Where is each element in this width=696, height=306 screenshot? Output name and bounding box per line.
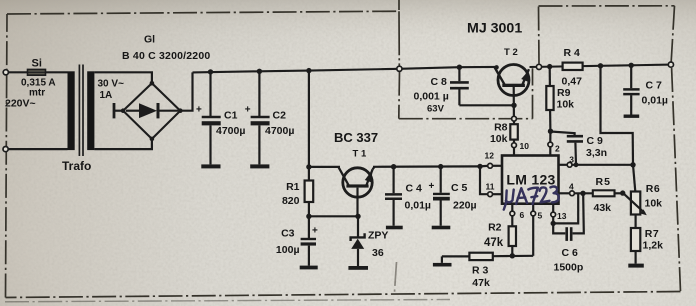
- resistor R5 43k: [593, 190, 615, 196]
- pin 6 and resistor R2 47k: [511, 204, 513, 211]
- transformer Trafo primary winding: [68, 71, 75, 150]
- transistor T1 BC337: [343, 168, 372, 197]
- wire secondary bottom to bridge: [94, 139, 151, 149]
- capacitor C8 0.001u: [457, 65, 462, 70]
- svg-text:R1: R1: [286, 181, 300, 193]
- svg-text:T 2: T 2: [504, 47, 518, 58]
- svg-text:R 3: R 3: [472, 265, 489, 277]
- wire base node: [309, 215, 358, 217]
- ground stub left of R3: [441, 256, 443, 263]
- svg-text:3: 3: [569, 155, 574, 165]
- svg-text:C 7: C 7: [646, 80, 663, 92]
- svg-text:R7: R7: [645, 228, 659, 240]
- transformer Trafo secondary winding: [87, 71, 94, 150]
- pin 11: [488, 192, 493, 197]
- svg-text:0,47: 0,47: [562, 76, 583, 88]
- capacitor C7 0.01u: [630, 65, 632, 88]
- svg-text:3,3n: 3,3n: [586, 147, 607, 159]
- svg-text:4700µ: 4700µ: [265, 125, 294, 137]
- capacitor C1: [209, 72, 211, 116]
- wire pin13 bypass up to R5 line: [553, 193, 578, 223]
- svg-text:43k: 43k: [594, 202, 612, 214]
- svg-text:13: 13: [557, 211, 567, 221]
- node C9 sense junction: [574, 162, 579, 167]
- pin 5: [532, 204, 534, 211]
- svg-text:+: +: [312, 226, 318, 237]
- svg-text:36: 36: [372, 247, 384, 259]
- svg-text:820: 820: [282, 195, 300, 207]
- svg-text:R6: R6: [646, 183, 660, 195]
- potentiometer R6 10k: [633, 165, 635, 192]
- wire 220V bottom input: [6, 148, 68, 150]
- wire 220V top input: [7, 71, 28, 73]
- wire secondary top to bridge: [94, 72, 151, 83]
- svg-text:R9: R9: [557, 87, 571, 99]
- transformer core: [78, 65, 80, 157]
- svg-text:C3: C3: [281, 228, 295, 240]
- svg-text:R2: R2: [488, 222, 502, 234]
- pin 4: [559, 192, 570, 194]
- node R1/C3/zener: [306, 214, 311, 219]
- svg-text:47k: 47k: [472, 277, 490, 289]
- terminal ring mains bottom: [3, 147, 8, 152]
- svg-text:C 9: C 9: [587, 135, 604, 147]
- svg-text:6: 6: [520, 210, 525, 220]
- wire branch from R4 right to sense line: [601, 66, 634, 165]
- resistor R4 0.47: [563, 63, 583, 70]
- svg-text:C 8: C 8: [431, 76, 448, 88]
- pin 13: [552, 204, 554, 212]
- svg-text:+: +: [429, 181, 435, 192]
- ground: [624, 115, 640, 118]
- svg-text:10: 10: [520, 141, 530, 151]
- wire T1 emitter to regulator supply: [373, 167, 375, 170]
- resistor R3 47k: [469, 253, 492, 260]
- svg-text:1500p: 1500p: [554, 262, 584, 274]
- svg-text:C2: C2: [273, 110, 287, 122]
- svg-text:4: 4: [569, 182, 574, 192]
- node C1 rail junction: [208, 69, 213, 74]
- svg-text:100µ: 100µ: [276, 244, 300, 256]
- terminal ring output +: [668, 62, 673, 67]
- svg-text:0,001 µ: 0,001 µ: [414, 91, 449, 103]
- wire R3 row: [442, 255, 470, 257]
- node T1 base / zener: [355, 214, 360, 219]
- pin 12: [488, 163, 493, 168]
- diode inside bridge: [126, 110, 139, 112]
- terminal ring mains top: [3, 70, 8, 75]
- svg-text:C 5: C 5: [451, 182, 468, 194]
- R6 wiper arrow: [623, 193, 645, 213]
- svg-text:+: +: [245, 105, 251, 116]
- wire riser to T1 stage: [308, 71, 310, 167]
- resistor R7 1.2k: [634, 215, 636, 229]
- zener ZPY36: [357, 216, 359, 237]
- svg-text:1,2k: 1,2k: [643, 240, 664, 252]
- ground stub at bridge minus (bar terminal): [113, 103, 116, 118]
- svg-text:12: 12: [485, 151, 495, 161]
- svg-text:B 40 C 3200/2200: B 40 C 3200/2200: [122, 50, 210, 62]
- svg-text:Si: Si: [32, 58, 42, 70]
- capacitor C6 1500p: [553, 223, 565, 233]
- capacitor C3 100u: [308, 216, 310, 238]
- svg-text:63V: 63V: [427, 104, 445, 115]
- op-amp U1 LM123 box: [502, 156, 559, 204]
- ground: [628, 264, 644, 268]
- pin 2: [549, 131, 551, 142]
- pin 10: [512, 143, 517, 148]
- svg-text:Trafo: Trafo: [62, 159, 91, 173]
- svg-text:+: +: [196, 105, 202, 116]
- resistor R9 10k: [549, 67, 551, 86]
- svg-text:R 4: R 4: [564, 47, 581, 59]
- wire C8 to T2 base: [459, 104, 514, 106]
- svg-text:R5: R5: [596, 176, 611, 188]
- node pin2 / R9 / C9 junction: [548, 129, 553, 134]
- svg-text:10k: 10k: [645, 198, 663, 210]
- svg-text:Gl: Gl: [144, 34, 155, 46]
- bridge rectifier Gl B40C3200/2200 diamond: [123, 83, 180, 139]
- capacitor C9 3.3n: [551, 132, 575, 136]
- svg-text:0,01µ: 0,01µ: [405, 200, 432, 212]
- svg-text:220µ: 220µ: [453, 200, 477, 212]
- svg-text:BC 337: BC 337: [334, 130, 378, 145]
- svg-text:ZPY: ZPY: [368, 230, 388, 242]
- svg-text:R8: R8: [494, 122, 508, 134]
- node T2 collector rail joint: [494, 65, 498, 69]
- node riser rail junction: [306, 68, 311, 73]
- svg-text:30 V~: 30 V~: [98, 79, 125, 90]
- svg-text:1A: 1A: [100, 90, 113, 101]
- fuse Si: [28, 69, 46, 75]
- svg-text:C 6: C 6: [562, 247, 579, 259]
- resistor R8 10k: [513, 122, 515, 125]
- svg-text:10k: 10k: [557, 99, 575, 111]
- terminal ring T2 emitter: [536, 64, 541, 69]
- svg-text:5: 5: [538, 211, 543, 221]
- wire bridge plus up to rail: [180, 72, 192, 110]
- node C7 rail junction: [629, 63, 634, 68]
- transistor T2 MJ3001: [498, 65, 529, 96]
- svg-text:220V~: 220V~: [5, 98, 36, 110]
- terminal ring on base (boundary crossing): [512, 116, 517, 121]
- ground: [348, 266, 368, 270]
- ground: [386, 226, 403, 230]
- capacitor C2: [258, 71, 260, 116]
- svg-text:LM 123: LM 123: [506, 172, 555, 188]
- resistor R1 820: [308, 167, 310, 181]
- svg-text:10k: 10k: [490, 133, 508, 145]
- node split pins 12/11: [477, 164, 482, 169]
- wire to T1 collector: [309, 166, 340, 168]
- ground: [250, 164, 269, 168]
- ground: [432, 226, 451, 230]
- svg-text:0,01µ: 0,01µ: [642, 95, 669, 107]
- node T1 collector: [306, 164, 311, 169]
- node R9 rail junction: [547, 64, 552, 69]
- ground: [201, 164, 220, 168]
- svg-text:11: 11: [486, 182, 495, 192]
- svg-text:MJ 3001: MJ 3001: [467, 21, 522, 37]
- terminal ring on border rail: [397, 66, 402, 71]
- pin 3: [559, 164, 567, 166]
- node T2 base / C8 junction: [511, 103, 516, 108]
- T2 base line: [513, 87, 515, 116]
- svg-text:47k: 47k: [484, 237, 504, 249]
- svg-text:C 4: C 4: [406, 183, 423, 195]
- svg-text:2: 2: [555, 144, 560, 154]
- svg-text:T 1: T 1: [353, 149, 367, 160]
- node C2 rail junction: [257, 69, 262, 74]
- handwritten uA723: [503, 186, 560, 209]
- node R4 output junction: [598, 63, 603, 68]
- capacitor C5 220u: [438, 164, 443, 169]
- svg-text:C1: C1: [224, 110, 238, 122]
- svg-text:4700µ: 4700µ: [216, 125, 245, 137]
- capacitor C4 0.01u: [391, 164, 396, 169]
- ground: [300, 266, 318, 270]
- wire main + rail: [193, 67, 497, 73]
